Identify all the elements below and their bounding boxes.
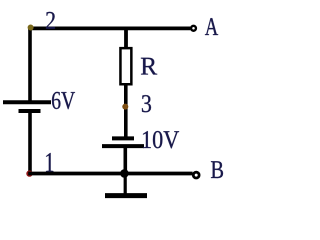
node 2 — [28, 25, 34, 31]
wire: left rail upper (node 2 down to 6V battery) — [28, 27, 32, 102]
terminal A label — [205, 18, 218, 35]
node 3 — [122, 104, 128, 110]
wire: bottom rail from node 1 to terminal B — [28, 172, 192, 176]
wire: resistor branch upper (top rail down to resistor) — [124, 27, 128, 49]
resistor R — [120, 48, 131, 84]
junction: bottom rail / ground tap — [120, 169, 129, 178]
node 2 label — [46, 12, 55, 29]
wire: left rail lower (6V battery down to node 1) — [28, 113, 32, 174]
battery B1 6V negative plate (short) — [19, 109, 41, 113]
resistor value label R — [141, 58, 157, 75]
wire: 10V battery down to bottom rail — [124, 148, 128, 175]
node 3 label — [142, 95, 151, 112]
battery B2 value label 10V — [143, 131, 179, 148]
terminal A — [191, 26, 196, 31]
battery B2 10V positive plate (long) — [102, 144, 144, 148]
terminal B — [193, 172, 199, 178]
battery B1 6V positive plate (long) — [3, 100, 51, 104]
ground — [105, 193, 147, 198]
wire: ground stub — [124, 174, 127, 194]
terminal B label — [211, 161, 223, 178]
battery B1 value label 6V — [52, 92, 75, 109]
battery B2 10V negative plate (short) — [112, 136, 134, 140]
node 1 — [26, 170, 32, 176]
wire: resistor to 10V battery through node 3 — [124, 85, 128, 138]
node 1 label — [46, 153, 53, 172]
wire: top rail from node 2 to terminal A — [28, 26, 190, 30]
